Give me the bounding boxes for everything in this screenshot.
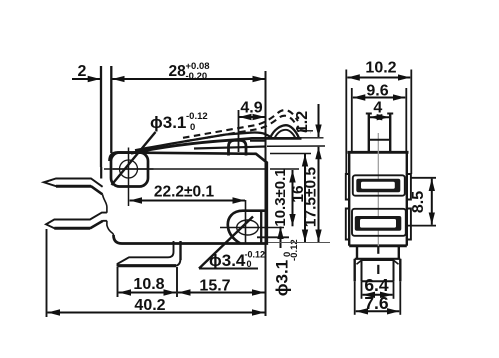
side push button — [366, 114, 393, 153]
svg-text:6.4: 6.4 — [364, 275, 389, 295]
mounting hole right — [220, 200, 284, 244]
bottom terminal shroud — [355, 259, 401, 282]
mounting ear left — [111, 153, 148, 187]
dimension 7.6 — [355, 281, 401, 315]
lever simulated-roller dimple — [250, 125, 299, 141]
side body outline — [348, 152, 409, 246]
dimension 28 +0.08/-0.20 — [112, 61, 265, 316]
svg-text:10.8: 10.8 — [133, 276, 164, 293]
lever (dashed, free position) — [183, 110, 311, 141]
svg-text:7.6: 7.6 — [364, 293, 389, 313]
svg-text:-0.12: -0.12 — [245, 250, 266, 260]
hole label phi 3.1 top — [112, 111, 208, 185]
dimension 17.5±0.5 — [267, 146, 330, 243]
side center line — [377, 133, 379, 274]
dimension 10.8 — [118, 267, 178, 297]
svg-text:9.6: 9.6 — [366, 82, 388, 99]
svg-text:ϕ3.1: ϕ3.1 — [150, 113, 186, 132]
svg-text:2: 2 — [78, 63, 87, 80]
bottom neck — [355, 246, 401, 259]
dimension 8.5 — [407, 178, 436, 226]
lever (solid, operating position) — [131, 132, 302, 153]
dimension 10.2 — [346, 60, 411, 175]
svg-text:0: 0 — [282, 252, 293, 257]
body outline — [101, 153, 267, 244]
svg-text:4.9: 4.9 — [240, 100, 262, 117]
terminal slot row 1 — [353, 175, 405, 195]
mounting hole left — [104, 148, 154, 207]
svg-text:ϕ3.4: ϕ3.4 — [209, 251, 246, 270]
svg-text:40.2: 40.2 — [134, 297, 165, 314]
svg-text:22.2±0.1: 22.2±0.1 — [154, 184, 215, 201]
svg-text:0: 0 — [190, 122, 195, 133]
svg-text:4: 4 — [373, 100, 382, 117]
dimension 15.7 — [178, 278, 265, 295]
dimension 9.6 — [352, 82, 407, 152]
dimension 4.9 — [239, 100, 266, 153]
dimension 4 — [370, 100, 389, 118]
svg-text:-0.12: -0.12 — [186, 111, 208, 122]
terminal 1 (left upper) — [44, 179, 103, 195]
svg-text:0: 0 — [247, 259, 252, 269]
label phi 3.1 vertical — [273, 227, 301, 297]
dimension 22.2±0.1 — [130, 184, 246, 201]
side ribs — [346, 174, 411, 240]
svg-text:1.2: 1.2 — [294, 111, 311, 133]
svg-text:15.7: 15.7 — [199, 278, 230, 295]
dimension 16 — [270, 154, 311, 243]
svg-text:ϕ3.1: ϕ3.1 — [273, 260, 292, 296]
dimension 6.4 — [362, 275, 394, 299]
svg-text:10.3±0.1: 10.3±0.1 — [272, 168, 289, 226]
mounting ear right — [228, 211, 289, 244]
hole label phi 3.4 — [199, 217, 265, 271]
body seam line — [113, 168, 267, 170]
terminal 3 (bottom) — [118, 241, 181, 266]
svg-text:17.5±0.5: 17.5±0.5 — [303, 167, 320, 228]
terminal 2 (left lower) — [46, 213, 107, 229]
svg-text:28: 28 — [169, 63, 187, 80]
svg-text:-0.20: -0.20 — [186, 71, 208, 82]
svg-text:8.5: 8.5 — [410, 191, 427, 213]
dimension 1.2 — [294, 104, 324, 138]
push button (main view) — [194, 140, 266, 155]
dimension 2 — [72, 63, 111, 167]
dimension 10.3±0.1 — [270, 168, 299, 226]
dimension 40.2 — [47, 229, 265, 317]
svg-text:10.2: 10.2 — [365, 60, 396, 77]
terminal slot row 2 — [352, 209, 406, 236]
